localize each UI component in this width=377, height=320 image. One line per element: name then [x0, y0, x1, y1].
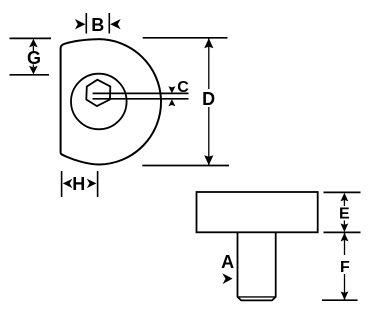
svg-text:E: E: [339, 206, 350, 223]
screw head (side view): [197, 192, 318, 232]
dimension B arrow left: [75, 19, 86, 29]
svg-text:B: B: [91, 15, 104, 35]
dimension H arrow right: [87, 179, 97, 188]
dimension F line: [344, 233, 346, 300]
dimension D top extension line: [143, 37, 228, 39]
dimension G top extension line: [10, 37, 52, 39]
dimension F arrow up: [341, 233, 349, 242]
screw shank with chamfered end: [238, 232, 276, 300]
spacer body outline (front view): [61, 39, 161, 164]
dimension D line lower: [208, 107, 210, 165]
dimension C arrow up: [168, 99, 175, 106]
dimension C arrow down: [168, 86, 175, 93]
dimension H extension bar right: [97, 171, 99, 197]
dimension D bottom extension line: [142, 165, 229, 167]
dimension D line upper: [208, 38, 210, 89]
dimension G arrow up: [29, 39, 38, 48]
chamfer line: [238, 296, 276, 298]
dimension G arrow down: [29, 66, 38, 75]
dimension E/F middle extension line: [324, 231, 361, 233]
dimension H arrow left: [63, 179, 73, 188]
dimension B extension bar left: [85, 13, 87, 34]
dimension F arrow down: [341, 291, 349, 300]
dimension F bottom extension line: [322, 299, 358, 301]
svg-text:G: G: [27, 48, 41, 68]
svg-text:F: F: [340, 259, 350, 276]
svg-text:A: A: [221, 252, 234, 272]
svg-text:C: C: [177, 79, 189, 96]
slot line lower: [93, 98, 189, 100]
svg-text:D: D: [202, 89, 215, 109]
pointer arrow A: [222, 273, 232, 284]
hex socket: [86, 80, 110, 106]
dimension D arrow up: [204, 38, 213, 48]
dimension E arrow up: [341, 193, 349, 202]
dimension B extension bar right: [108, 13, 110, 34]
dimension H extension bar left: [61, 171, 63, 197]
counterbore circle: [71, 74, 127, 130]
dimension D arrow down: [204, 155, 213, 165]
label F mask: [337, 255, 352, 274]
slot line upper: [93, 92, 189, 94]
dimension B arrow right: [110, 19, 121, 29]
dimension G bottom extension line: [10, 74, 50, 76]
dimension E top extension line: [324, 191, 361, 193]
svg-text:H: H: [72, 174, 85, 194]
dimension E arrow down: [341, 223, 349, 232]
